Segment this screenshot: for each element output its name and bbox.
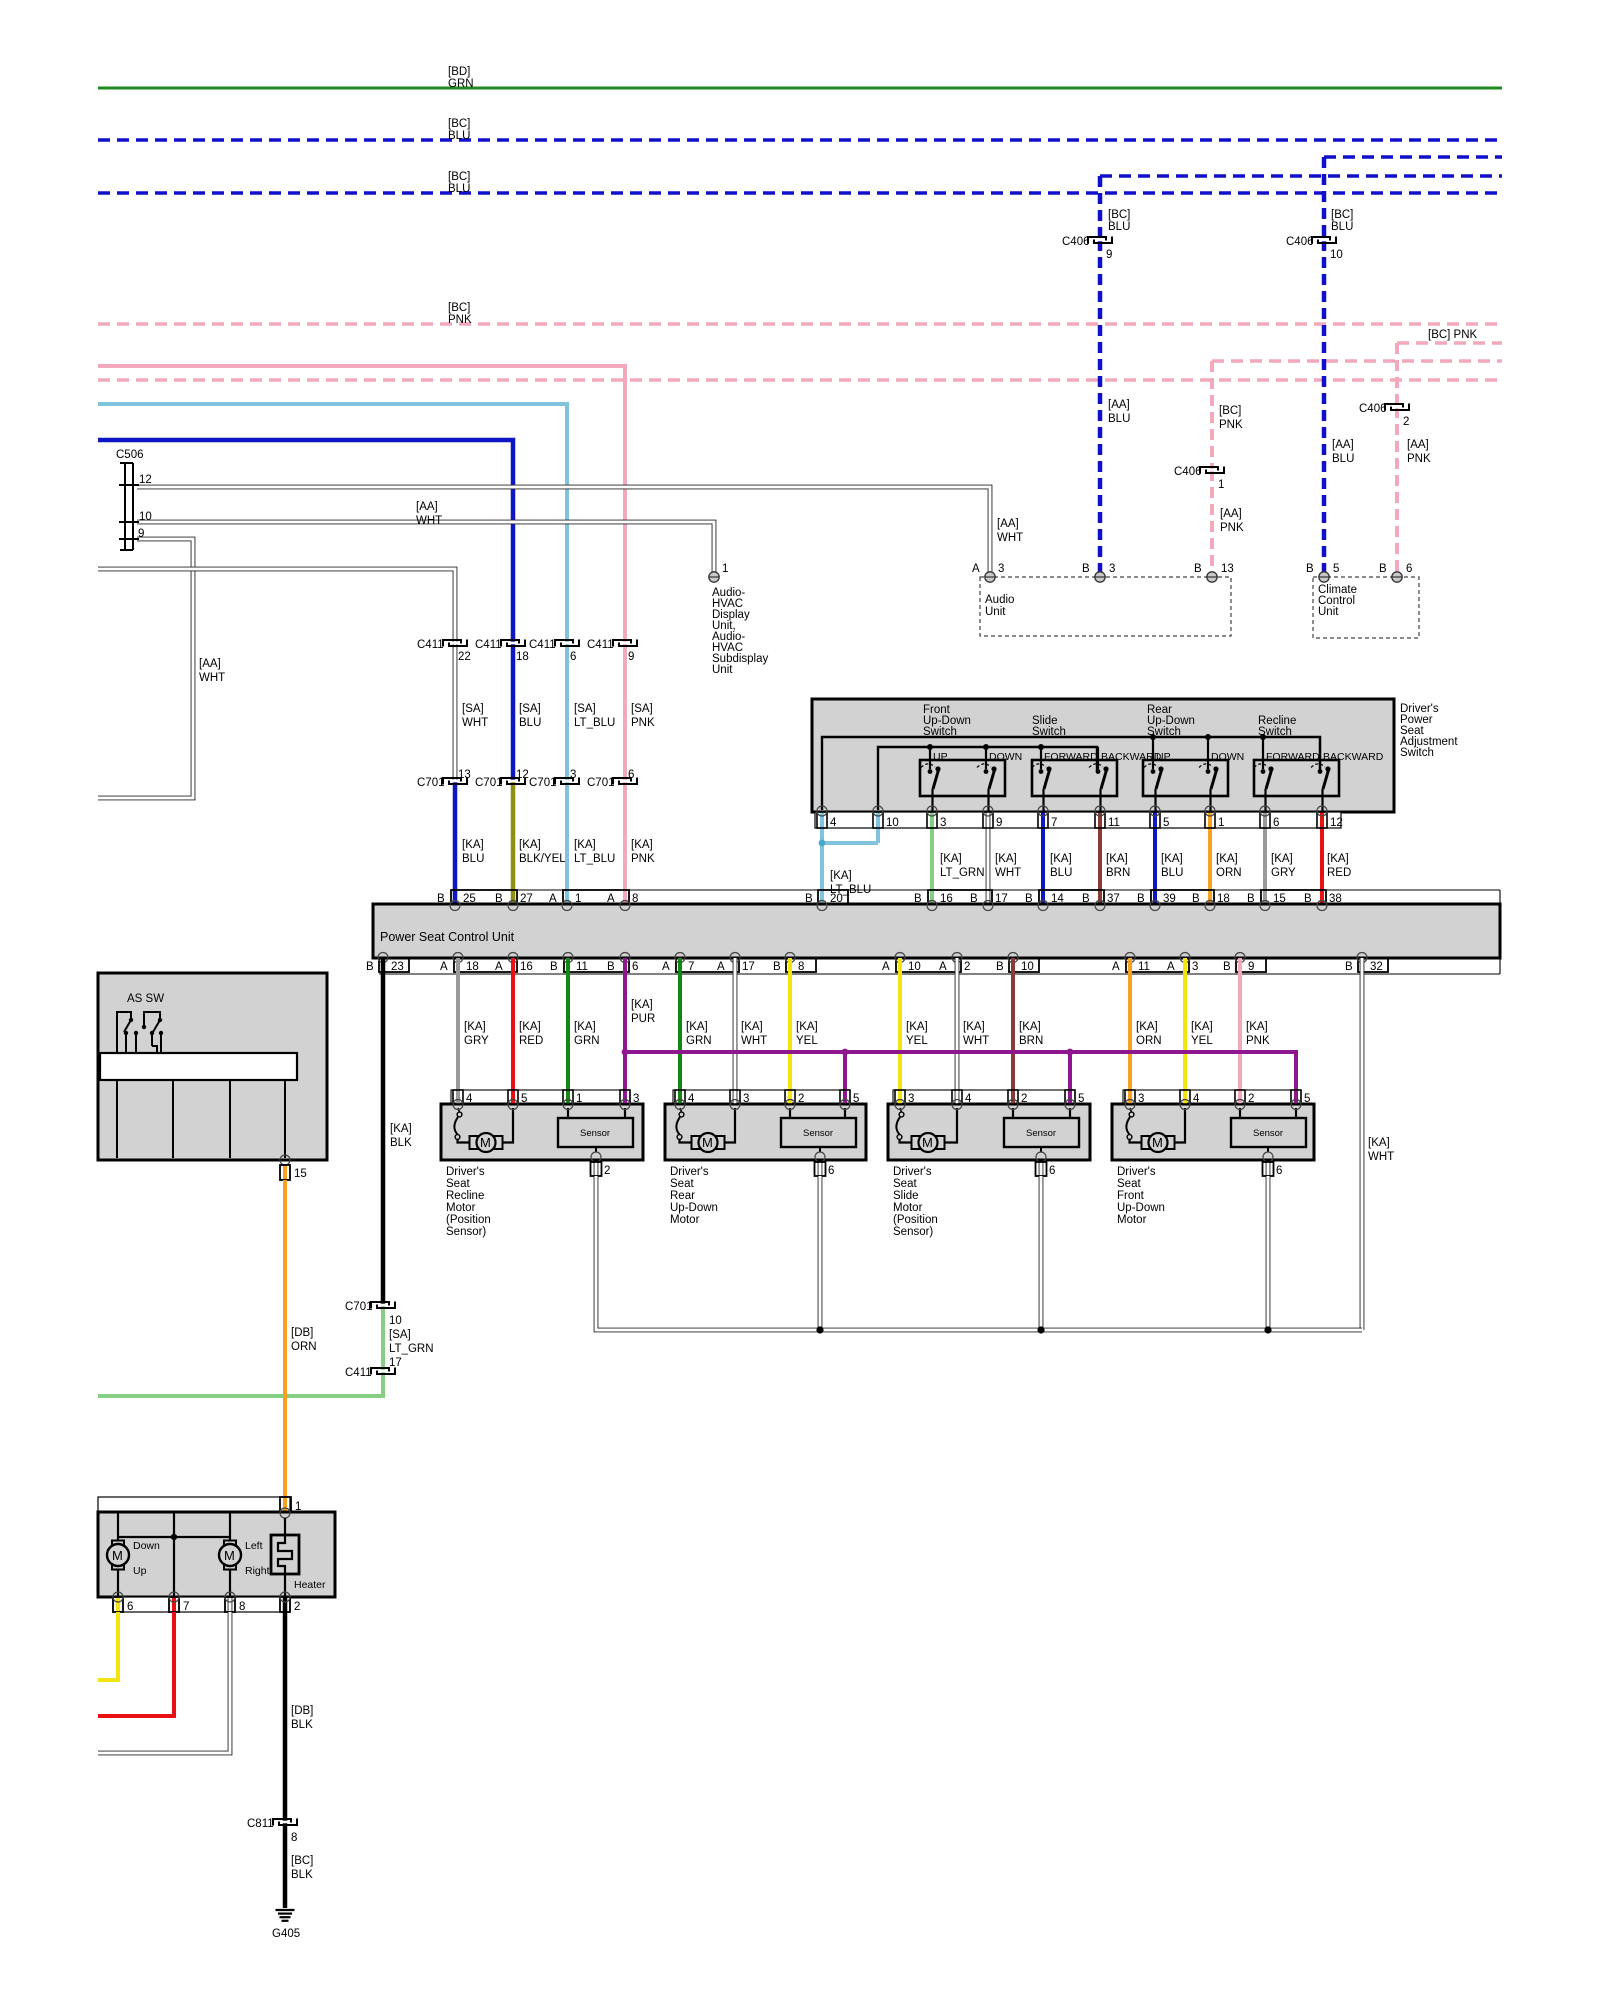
svg-text:3: 3: [633, 1093, 639, 1105]
svg-text:10: 10: [886, 817, 899, 829]
svg-text:RED: RED: [519, 1035, 543, 1047]
motor M up-down internal: [107, 1512, 160, 1597]
svg-text:Seat: Seat: [446, 1178, 470, 1190]
svg-text:2: 2: [294, 1601, 300, 1613]
svg-text:LT_GRN: LT_GRN: [389, 1343, 434, 1355]
svg-text:FORWARD: FORWARD: [1044, 751, 1098, 763]
svg-text:WHT: WHT: [416, 515, 442, 527]
svg-text:WHT: WHT: [199, 672, 225, 684]
pin 4 M2 Driver's Seat Rear Up-Down Motor: [675, 1090, 695, 1110]
pin 4 adjustment switch: [817, 806, 837, 905]
svg-text:B: B: [1306, 563, 1314, 575]
svg-text:3: 3: [1192, 961, 1198, 973]
wire [SA] BLU C411 18 to C701 12: [513, 643, 541, 781]
svg-text:BLU: BLU: [1332, 453, 1354, 465]
svg-text:BLU: BLU: [448, 130, 470, 142]
svg-text:B: B: [970, 893, 978, 905]
svg-text:PNK: PNK: [1220, 522, 1244, 534]
svg-text:2: 2: [1021, 1093, 1027, 1105]
pin B32 PSCU: [1345, 958, 1388, 973]
svg-text:[BD]: [BD]: [448, 66, 470, 78]
svg-text:10: 10: [1330, 249, 1343, 261]
pin 7 adjustment switch: [1038, 806, 1057, 905]
svg-text:[DB]: [DB]: [291, 1705, 313, 1717]
svg-text:A: A: [882, 961, 890, 973]
svg-text:16: 16: [940, 893, 953, 905]
svg-text:Seat: Seat: [893, 1178, 917, 1190]
svg-text:C411: C411: [529, 639, 556, 651]
heater element R1: [271, 1518, 326, 1597]
connector C506: [116, 449, 152, 550]
svg-text:2: 2: [1248, 1093, 1254, 1105]
svg-text:A: A: [939, 961, 947, 973]
svg-text:[KA]: [KA]: [631, 999, 653, 1011]
svg-text:[BC]: [BC]: [448, 171, 470, 183]
svg-text:[KA]: [KA]: [1161, 853, 1183, 865]
wire [AA] BLU from C406 10 to climate control B5: [1324, 240, 1354, 578]
wire sensor output bus white: [596, 1176, 1362, 1334]
wire internal link with junction: [118, 1512, 230, 1597]
svg-text:6: 6: [828, 1165, 834, 1177]
switch AS SW box: [98, 973, 327, 1160]
svg-text:8: 8: [798, 961, 804, 973]
svg-text:[KA]: [KA]: [1191, 1021, 1213, 1033]
svg-text:9: 9: [1106, 249, 1112, 261]
svg-text:3: 3: [940, 817, 946, 829]
svg-text:RED: RED: [1327, 867, 1351, 879]
wire [KA] BLK/YEL C701 12 to PSCU B27: [513, 781, 566, 905]
pin A11 and A3 PSCU: [1112, 958, 1198, 973]
wire [KA] LT_BLU C701 3 to PSCU A1: [567, 781, 615, 905]
svg-text:9: 9: [1248, 961, 1254, 973]
wire [KA] BRN PSCU to motor: [1013, 958, 1043, 1090]
connector C411 pin 18: [475, 639, 529, 663]
pin A3 audio unit: [972, 563, 1004, 582]
switch SW1 Driver's Power Seat Adjustment Switch box: [812, 699, 1458, 812]
connector C411 pin 17: [345, 1357, 402, 1379]
svg-text:YEL: YEL: [906, 1035, 928, 1047]
wire light blue to C411 pin 6: [98, 404, 567, 643]
svg-text:[KA]: [KA]: [464, 1021, 486, 1033]
svg-text:PNK: PNK: [1219, 419, 1243, 431]
connector C701 pin 10 black wire: [345, 1301, 402, 1327]
svg-text:B: B: [1223, 961, 1231, 973]
wire [BC] BLU vertical to C406 pin 10: [1324, 157, 1353, 240]
svg-text:WHT: WHT: [1368, 1151, 1394, 1163]
pin B6 climate control: [1379, 563, 1412, 582]
svg-text:8: 8: [239, 1601, 245, 1613]
svg-text:B: B: [550, 961, 558, 973]
svg-text:LT_BLU: LT_BLU: [574, 717, 615, 729]
svg-text:BLK: BLK: [291, 1869, 313, 1881]
wire [KA] YEL PSCU to motor: [790, 958, 818, 1090]
svg-text:11: 11: [1138, 961, 1150, 973]
switch contact box rear up-down: [1143, 760, 1228, 796]
wire [AA] PNK from C406 1 to audio unit B13: [1212, 470, 1244, 578]
pin 3 M2 Driver's Seat Rear Up-Down Motor: [730, 1090, 749, 1110]
svg-text:27: 27: [520, 893, 533, 905]
wire [KA] WHT PSCU to motor: [735, 958, 767, 1090]
svg-text:2: 2: [964, 961, 970, 973]
Power Seat Control Unit U-PSCU: [373, 904, 1500, 958]
svg-text:DOWN: DOWN: [1211, 751, 1244, 763]
svg-text:4: 4: [688, 1093, 695, 1105]
pin 15 AS SW: [280, 1155, 307, 1180]
wire [KA] YEL PSCU to motor: [1185, 958, 1213, 1090]
wire [BC] BLU bus 2: [98, 171, 1502, 195]
svg-text:Sensor: Sensor: [803, 1128, 833, 1139]
svg-text:15: 15: [1273, 893, 1286, 905]
svg-text:[BC] PNK: [BC] PNK: [1428, 329, 1478, 341]
svg-text:[KA]: [KA]: [1136, 1021, 1158, 1033]
svg-text:GRN: GRN: [686, 1035, 712, 1047]
svg-text:[SA]: [SA]: [631, 703, 653, 715]
svg-text:[KA]: [KA]: [574, 839, 596, 851]
svg-text:BLU: BLU: [1161, 867, 1183, 879]
svg-text:8: 8: [291, 1832, 297, 1844]
wire [KA] PNK C701 6 to PSCU A8: [625, 781, 655, 905]
svg-text:1: 1: [722, 563, 728, 575]
svg-text:5: 5: [521, 1093, 527, 1105]
svg-text:15: 15: [294, 1168, 307, 1180]
label M3 Driver's Seat Slide Motor: [893, 1166, 938, 1238]
svg-text:Driver's: Driver's: [893, 1166, 932, 1178]
svg-text:A: A: [495, 961, 503, 973]
svg-text:8: 8: [632, 893, 638, 905]
svg-text:[KA]: [KA]: [1216, 853, 1238, 865]
pin 1 circle heated seat: [280, 1508, 290, 1518]
wire [BC] PNK bus 2: [98, 378, 1502, 381]
svg-text:18: 18: [1217, 893, 1230, 905]
wire [SA] WHT C411 22 to C701 13: [455, 643, 488, 781]
pin B5 climate control: [1306, 563, 1339, 582]
svg-text:22: 22: [458, 651, 471, 663]
svg-text:B: B: [1082, 893, 1090, 905]
svg-text:PNK: PNK: [631, 853, 655, 865]
svg-text:12: 12: [516, 769, 529, 781]
wire [KA] WHT PSCU to motor: [957, 958, 989, 1090]
svg-text:Left: Left: [245, 1540, 263, 1552]
connector C701 pin 13: [417, 769, 471, 789]
svg-text:Up-Down: Up-Down: [1117, 1202, 1165, 1214]
svg-text:C411: C411: [587, 639, 614, 651]
switch contact BACKWARD: [1311, 737, 1384, 812]
svg-text:Sensor: Sensor: [1253, 1128, 1283, 1139]
pin B3 audio unit: [1082, 563, 1115, 582]
svg-text:3: 3: [1138, 1093, 1144, 1105]
svg-text:1: 1: [576, 1093, 582, 1105]
svg-text:ORN: ORN: [1216, 867, 1242, 879]
wire white exits left: [98, 1612, 230, 1753]
svg-text:A: A: [1112, 961, 1120, 973]
wire [AA] WHT C506 pin 12 to audio unit A3: [137, 487, 1023, 572]
svg-text:PUR: PUR: [631, 1013, 655, 1025]
wire [KA] BLU C701 13 to PSCU B25: [455, 781, 484, 905]
pin strip of adjustment switch: [815, 812, 1341, 828]
pin 8 heated seat: [225, 1592, 245, 1613]
svg-text:[AA]: [AA]: [1407, 439, 1429, 451]
svg-text:UP: UP: [933, 751, 948, 763]
PSCU bottom pin strip: [379, 958, 1500, 974]
svg-text:18: 18: [466, 961, 479, 973]
svg-text:9: 9: [628, 651, 634, 663]
pin 5 M4 Driver's Seat Front Up-Down Motor: [1291, 1090, 1310, 1110]
pin 3 M3 Driver's Seat Slide Motor: [895, 1090, 914, 1110]
svg-text:4: 4: [830, 817, 837, 829]
PSCU bottom pin circles: [378, 953, 1367, 963]
pin 2 M4 Driver's Seat Front Up-Down Motor: [1235, 1090, 1254, 1110]
svg-text:3: 3: [570, 769, 576, 781]
svg-text:Driver's: Driver's: [446, 1166, 485, 1178]
svg-text:3: 3: [908, 1093, 914, 1105]
wire [SA] LT_GRN C701 to C411: [383, 1305, 434, 1371]
svg-text:[KA]: [KA]: [830, 870, 852, 882]
svg-text:[KA]: [KA]: [963, 1021, 985, 1033]
pin 6 heated seat: [113, 1592, 133, 1613]
svg-text:6: 6: [628, 769, 634, 781]
svg-text:10: 10: [389, 1315, 402, 1327]
svg-text:LT_GRN: LT_GRN: [940, 867, 985, 879]
switch contact BACKWARD: [1089, 747, 1162, 812]
svg-text:A: A: [607, 893, 615, 905]
svg-text:14: 14: [1051, 893, 1064, 905]
wire label KA LT_GRN: [940, 853, 985, 879]
wire [SA] PNK C411 9 to C701 6: [625, 643, 655, 781]
svg-text:BLU: BLU: [1331, 221, 1353, 233]
wire blue to C411 pin 18: [98, 440, 513, 643]
wire [DB] BLK to C811: [285, 1612, 313, 1822]
wire [KA] PNK PSCU to motor: [1240, 958, 1270, 1090]
svg-text:[SA]: [SA]: [519, 703, 541, 715]
wire [BC] PNK vertical to C406 pin 1: [1212, 361, 1243, 470]
svg-text:32: 32: [1370, 961, 1383, 973]
motor M4 Driver's Seat Front Up-Down Motor: [1112, 1090, 1314, 1160]
svg-text:Motor: Motor: [670, 1214, 700, 1226]
svg-text:[DB]: [DB]: [291, 1327, 313, 1339]
pin 5 M3 Driver's Seat Slide Motor: [1065, 1090, 1084, 1110]
svg-text:C506: C506: [116, 449, 144, 461]
svg-text:9: 9: [996, 817, 1002, 829]
svg-text:C406: C406: [1359, 403, 1387, 415]
connector C701 pin 3: [529, 769, 580, 789]
svg-text:[AA]: [AA]: [416, 501, 438, 513]
pin B15 and B38 PSCU: [1247, 890, 1342, 905]
svg-text:3: 3: [998, 563, 1004, 575]
svg-text:Sensor): Sensor): [893, 1226, 933, 1238]
svg-text:B: B: [1082, 563, 1090, 575]
svg-text:[KA]: [KA]: [1368, 1137, 1390, 1149]
svg-text:[KA]: [KA]: [390, 1123, 412, 1135]
node 1 Audio-HVAC Display Unit: [709, 563, 769, 676]
svg-text:Up: Up: [133, 1565, 147, 1577]
wire LT_GRN exits left: [98, 1371, 383, 1396]
label M1 Driver's Seat Recline Motor: [446, 1166, 491, 1238]
svg-text:Sensor: Sensor: [1026, 1128, 1056, 1139]
svg-text:10: 10: [908, 961, 921, 973]
svg-text:BLK/YEL: BLK/YEL: [519, 853, 566, 865]
svg-text:Recline: Recline: [446, 1190, 484, 1202]
motor M3 Driver's Seat Slide Motor: [888, 1090, 1090, 1160]
svg-text:WHT: WHT: [741, 1035, 767, 1047]
connector C406 pin 1: [1174, 466, 1225, 491]
svg-text:[KA]: [KA]: [1019, 1021, 1041, 1033]
svg-text:6: 6: [570, 651, 576, 663]
pin 1 adjustment switch: [1205, 806, 1224, 905]
svg-text:7: 7: [1051, 817, 1057, 829]
svg-text:BLU: BLU: [448, 183, 470, 195]
svg-text:B: B: [805, 893, 813, 905]
svg-text:[KA]: [KA]: [995, 853, 1017, 865]
connector C811 pin 8: [247, 1818, 298, 1844]
wire label KA GRY: [1271, 853, 1296, 879]
pin A10 and A2 PSCU: [882, 958, 970, 973]
Audio Unit U-audio: [980, 577, 1231, 636]
svg-text:[KA]: [KA]: [1327, 853, 1349, 865]
pin 5 adjustment switch: [1150, 806, 1169, 905]
svg-text:B: B: [437, 893, 445, 905]
pin sensor output M1 Driver's Seat Recline Motor: [591, 1152, 611, 1177]
svg-text:B: B: [1345, 961, 1353, 973]
svg-text:Driver's: Driver's: [1117, 1166, 1156, 1178]
svg-text:BLU: BLU: [519, 717, 541, 729]
svg-text:[BC]: [BC]: [1331, 209, 1353, 221]
svg-text:37: 37: [1107, 893, 1120, 905]
svg-text:Unit: Unit: [712, 664, 733, 676]
pin B9 PSCU: [1223, 958, 1266, 973]
svg-text:B: B: [1379, 563, 1387, 575]
svg-text:[KA]: [KA]: [574, 1021, 596, 1033]
svg-text:[AA]: [AA]: [1332, 439, 1354, 451]
svg-text:G405: G405: [272, 1928, 300, 1940]
svg-text:Motor: Motor: [1117, 1214, 1147, 1226]
svg-text:[AA]: [AA]: [199, 658, 221, 670]
pin 12 adjustment switch: [1317, 806, 1343, 905]
pin 4 M4 Driver's Seat Front Up-Down Motor: [1180, 1090, 1200, 1110]
wire [DB] ORN AS SW to heated seat pin 1: [285, 1180, 317, 1497]
wire [AA] BLU from C406 9 to audio unit B3: [1100, 240, 1130, 578]
svg-text:[SA]: [SA]: [389, 1329, 411, 1341]
wire [AA] WHT C506 pin 9 exits left: [98, 539, 225, 798]
svg-text:PNK: PNK: [1407, 453, 1431, 465]
svg-text:16: 16: [520, 961, 533, 973]
svg-text:BLU: BLU: [462, 853, 484, 865]
svg-text:Seat: Seat: [670, 1178, 694, 1190]
wire [KA] GRN PSCU to motor: [568, 958, 600, 1090]
svg-text:B: B: [1192, 893, 1200, 905]
svg-text:[KA]: [KA]: [906, 1021, 928, 1033]
pin B16 and B17 PSCU: [914, 890, 1008, 905]
pin B39 and B18 PSCU: [1137, 890, 1230, 905]
pin 10 adjustment switch: [873, 806, 899, 843]
svg-text:[KA]: [KA]: [519, 1021, 541, 1033]
svg-text:B: B: [495, 893, 503, 905]
AS SW cell dividers: [117, 1080, 285, 1158]
svg-text:17: 17: [995, 893, 1008, 905]
svg-text:C406: C406: [1062, 236, 1090, 248]
wire label KA BRN: [1106, 853, 1130, 879]
svg-text:6: 6: [1406, 563, 1412, 575]
svg-text:BRN: BRN: [1019, 1035, 1043, 1047]
svg-text:GRN: GRN: [448, 78, 474, 90]
wire red exits left: [98, 1612, 174, 1716]
wire label KA WHT: [995, 853, 1021, 879]
svg-text:YEL: YEL: [796, 1035, 818, 1047]
svg-text:5: 5: [1304, 1093, 1310, 1105]
svg-text:5: 5: [1333, 563, 1339, 575]
motor M2 Driver's Seat Rear Up-Down Motor: [665, 1090, 866, 1160]
svg-text:[AA]: [AA]: [1108, 399, 1130, 411]
svg-text:Motor: Motor: [893, 1202, 923, 1214]
pin 5 M2 Driver's Seat Rear Up-Down Motor: [840, 1090, 859, 1110]
svg-text:BLU: BLU: [1108, 413, 1130, 425]
svg-text:YEL: YEL: [1191, 1035, 1213, 1047]
pin 3 adjustment switch: [927, 806, 946, 905]
wire [KA] WHT from B32 to sensor bus: [1362, 958, 1394, 1330]
svg-text:[BC]: [BC]: [1108, 209, 1130, 221]
svg-text:PNK: PNK: [448, 314, 472, 326]
svg-text:Heater: Heater: [294, 1579, 326, 1591]
svg-text:A: A: [1167, 961, 1175, 973]
svg-text:C701: C701: [417, 777, 445, 789]
svg-text:Motor: Motor: [446, 1202, 476, 1214]
svg-text:Rear: Rear: [670, 1190, 695, 1202]
pin B20 PSCU: [805, 890, 848, 905]
svg-text:M: M: [112, 1548, 123, 1563]
svg-text:GRY: GRY: [464, 1035, 489, 1047]
svg-text:Right: Right: [245, 1565, 270, 1577]
svg-text:WHT: WHT: [963, 1035, 989, 1047]
PSCU top pin strip: [452, 890, 1500, 904]
svg-text:A: A: [440, 961, 448, 973]
wire [BC] PNK stub 2: [1212, 359, 1502, 362]
switch contact DOWN: [1199, 737, 1244, 812]
svg-text:11: 11: [1108, 817, 1120, 829]
wire [BC] BLK to ground: [285, 1822, 313, 1908]
wire label KA BLU 2: [1161, 853, 1183, 879]
pin 1 M1 Driver's Seat Recline Motor: [563, 1090, 582, 1110]
svg-text:PNK: PNK: [1246, 1035, 1270, 1047]
ground G405: [272, 1910, 300, 1940]
connector C411 pin 9: [587, 639, 638, 663]
svg-text:FORWARD: FORWARD: [1266, 751, 1320, 763]
svg-text:WHT: WHT: [997, 532, 1023, 544]
svg-text:[BC]: [BC]: [448, 118, 470, 130]
svg-text:WHT: WHT: [462, 717, 488, 729]
svg-text:20: 20: [830, 893, 843, 905]
svg-text:Seat: Seat: [1117, 1178, 1141, 1190]
svg-text:M: M: [224, 1548, 235, 1563]
svg-text:C701: C701: [475, 777, 503, 789]
svg-text:Front: Front: [1117, 1190, 1145, 1202]
svg-text:5: 5: [1163, 817, 1169, 829]
Climate Control Unit U-climate: [1313, 577, 1419, 638]
svg-text:[SA]: [SA]: [574, 703, 596, 715]
pin 2 heated seat: [280, 1592, 300, 1613]
svg-text:B: B: [914, 893, 922, 905]
svg-text:4: 4: [1193, 1093, 1200, 1105]
svg-text:B: B: [607, 961, 615, 973]
switch contact UP: [921, 747, 948, 812]
wire [BC] BLU stub to C406 pin 10: [1324, 155, 1502, 158]
svg-text:7: 7: [688, 961, 694, 973]
wire internal bus from pin 4: [822, 734, 1320, 810]
svg-text:18: 18: [516, 651, 529, 663]
motor M1 Driver's Seat Recline Motor: [441, 1090, 643, 1160]
wire label KA ORN: [1216, 853, 1242, 879]
svg-text:BLK: BLK: [390, 1137, 412, 1149]
wire pink solid to C411 pin 9: [98, 366, 625, 643]
pin 3 M4 Driver's Seat Front Up-Down Motor: [1125, 1090, 1144, 1110]
